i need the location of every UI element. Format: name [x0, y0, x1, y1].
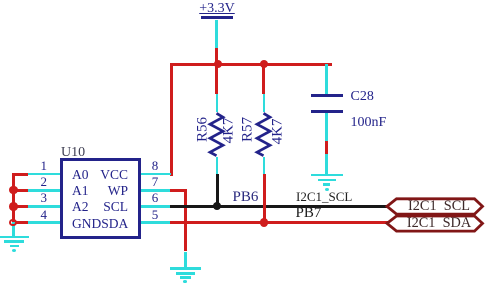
pin 6 number	[145, 190, 165, 206]
wire R56 top leg red	[215, 64, 218, 94]
wire stub pin4 red	[12, 221, 28, 224]
pin 7 (cyan)	[141, 189, 171, 192]
net label PB6	[233, 189, 259, 206]
label C28	[351, 89, 374, 105]
pin R57 bottom (cyan)	[263, 157, 266, 174]
wire +3.3V feed (cyan pin)	[215, 20, 218, 49]
IC row A0 VCC	[72, 167, 128, 183]
port I2C1_SDA	[384, 212, 487, 236]
wire stub pin2 red	[12, 189, 28, 192]
junction R57/PB7 (red)	[260, 218, 269, 227]
pin 4 number	[27, 207, 47, 223]
pin 2 number	[27, 174, 47, 190]
label U10	[61, 145, 85, 161]
port I2C1_SCL	[384, 195, 487, 219]
power +3.3V bar	[201, 16, 233, 19]
wire R57 bottom leg red	[263, 174, 266, 224]
pin ground stem center (cyan)	[184, 252, 187, 269]
ground (left)	[0, 236, 29, 239]
pin 5 (cyan)	[141, 221, 171, 224]
net label I2C1_SCL	[296, 189, 352, 205]
pin 8 number	[145, 158, 165, 174]
pin 1 number	[27, 158, 47, 174]
wire stub pin3 red	[12, 205, 28, 208]
label 4K7 (R56)	[228, 131, 230, 133]
junction R56/PB6 (black)	[213, 202, 221, 210]
port text I2C1 SCL	[404, 198, 474, 215]
label 100nF	[351, 115, 387, 131]
label R57	[247, 130, 249, 132]
port text I2C1 SDA	[404, 215, 474, 232]
wire rail down to pin 8	[170, 63, 173, 176]
wire +3.3V feed (red)	[215, 48, 218, 64]
IC row A1 WP	[72, 183, 128, 199]
resistor R57	[254, 112, 273, 158]
IC row GND SDA	[72, 216, 128, 232]
wire pin7 horizontal red	[170, 189, 187, 192]
net label PB7	[296, 205, 322, 222]
pin 3 (cyan)	[28, 205, 60, 208]
junction rail/R56	[214, 60, 222, 68]
capacitor C28 plate 1	[311, 94, 343, 97]
capacitor C28 plate 2	[311, 110, 343, 113]
label R56	[202, 130, 204, 132]
pin capacitor C28 top (cyan)	[325, 64, 328, 94]
pin 1 (cyan)	[28, 173, 60, 176]
ground (center)	[170, 267, 201, 270]
pin R57 top (cyan)	[263, 94, 266, 113]
pin 7 number	[145, 174, 165, 190]
pin capacitor C28 bottom (cyan)	[325, 113, 328, 141]
junction rail/R57	[260, 60, 268, 68]
pin 5 number	[145, 207, 165, 223]
label 4K7 (R57)	[277, 132, 279, 134]
pin 2 (cyan)	[28, 189, 60, 192]
junction pin2	[9, 186, 18, 195]
pin 3 number	[27, 190, 47, 206]
pin 8 (cyan)	[141, 173, 171, 176]
wire R56 bottom leg black	[216, 174, 219, 207]
wire power rail	[170, 63, 332, 66]
wire left vertical red	[12, 173, 15, 225]
wire net PB6 / I2C1_SCL (black)	[170, 205, 389, 208]
pin R56 bottom (cyan)	[216, 157, 219, 174]
power +3.3V label	[196, 1, 238, 17]
junction pin4 (ring)	[9, 219, 17, 227]
pin 4 (cyan)	[28, 221, 60, 224]
wire pin7 vertical red to ground	[184, 189, 187, 252]
IC row A2 SCL	[72, 199, 128, 215]
pin R56 top (cyan)	[216, 94, 219, 113]
wire cap to ground (red)	[325, 141, 328, 154]
resistor R56	[207, 112, 226, 158]
wire stub pin1 red	[12, 173, 28, 176]
ground (capacitor)	[311, 174, 343, 177]
wire net PB7 / I2C1_SDA (red)	[170, 221, 389, 224]
junction pin3	[9, 202, 18, 211]
IC U10 body	[60, 158, 141, 239]
wire R57 top leg red	[262, 64, 265, 94]
pin ground stem (cyan)	[325, 154, 328, 174]
pin 6 (cyan)	[141, 205, 171, 208]
pin ground stem left (cyan)	[12, 222, 15, 236]
